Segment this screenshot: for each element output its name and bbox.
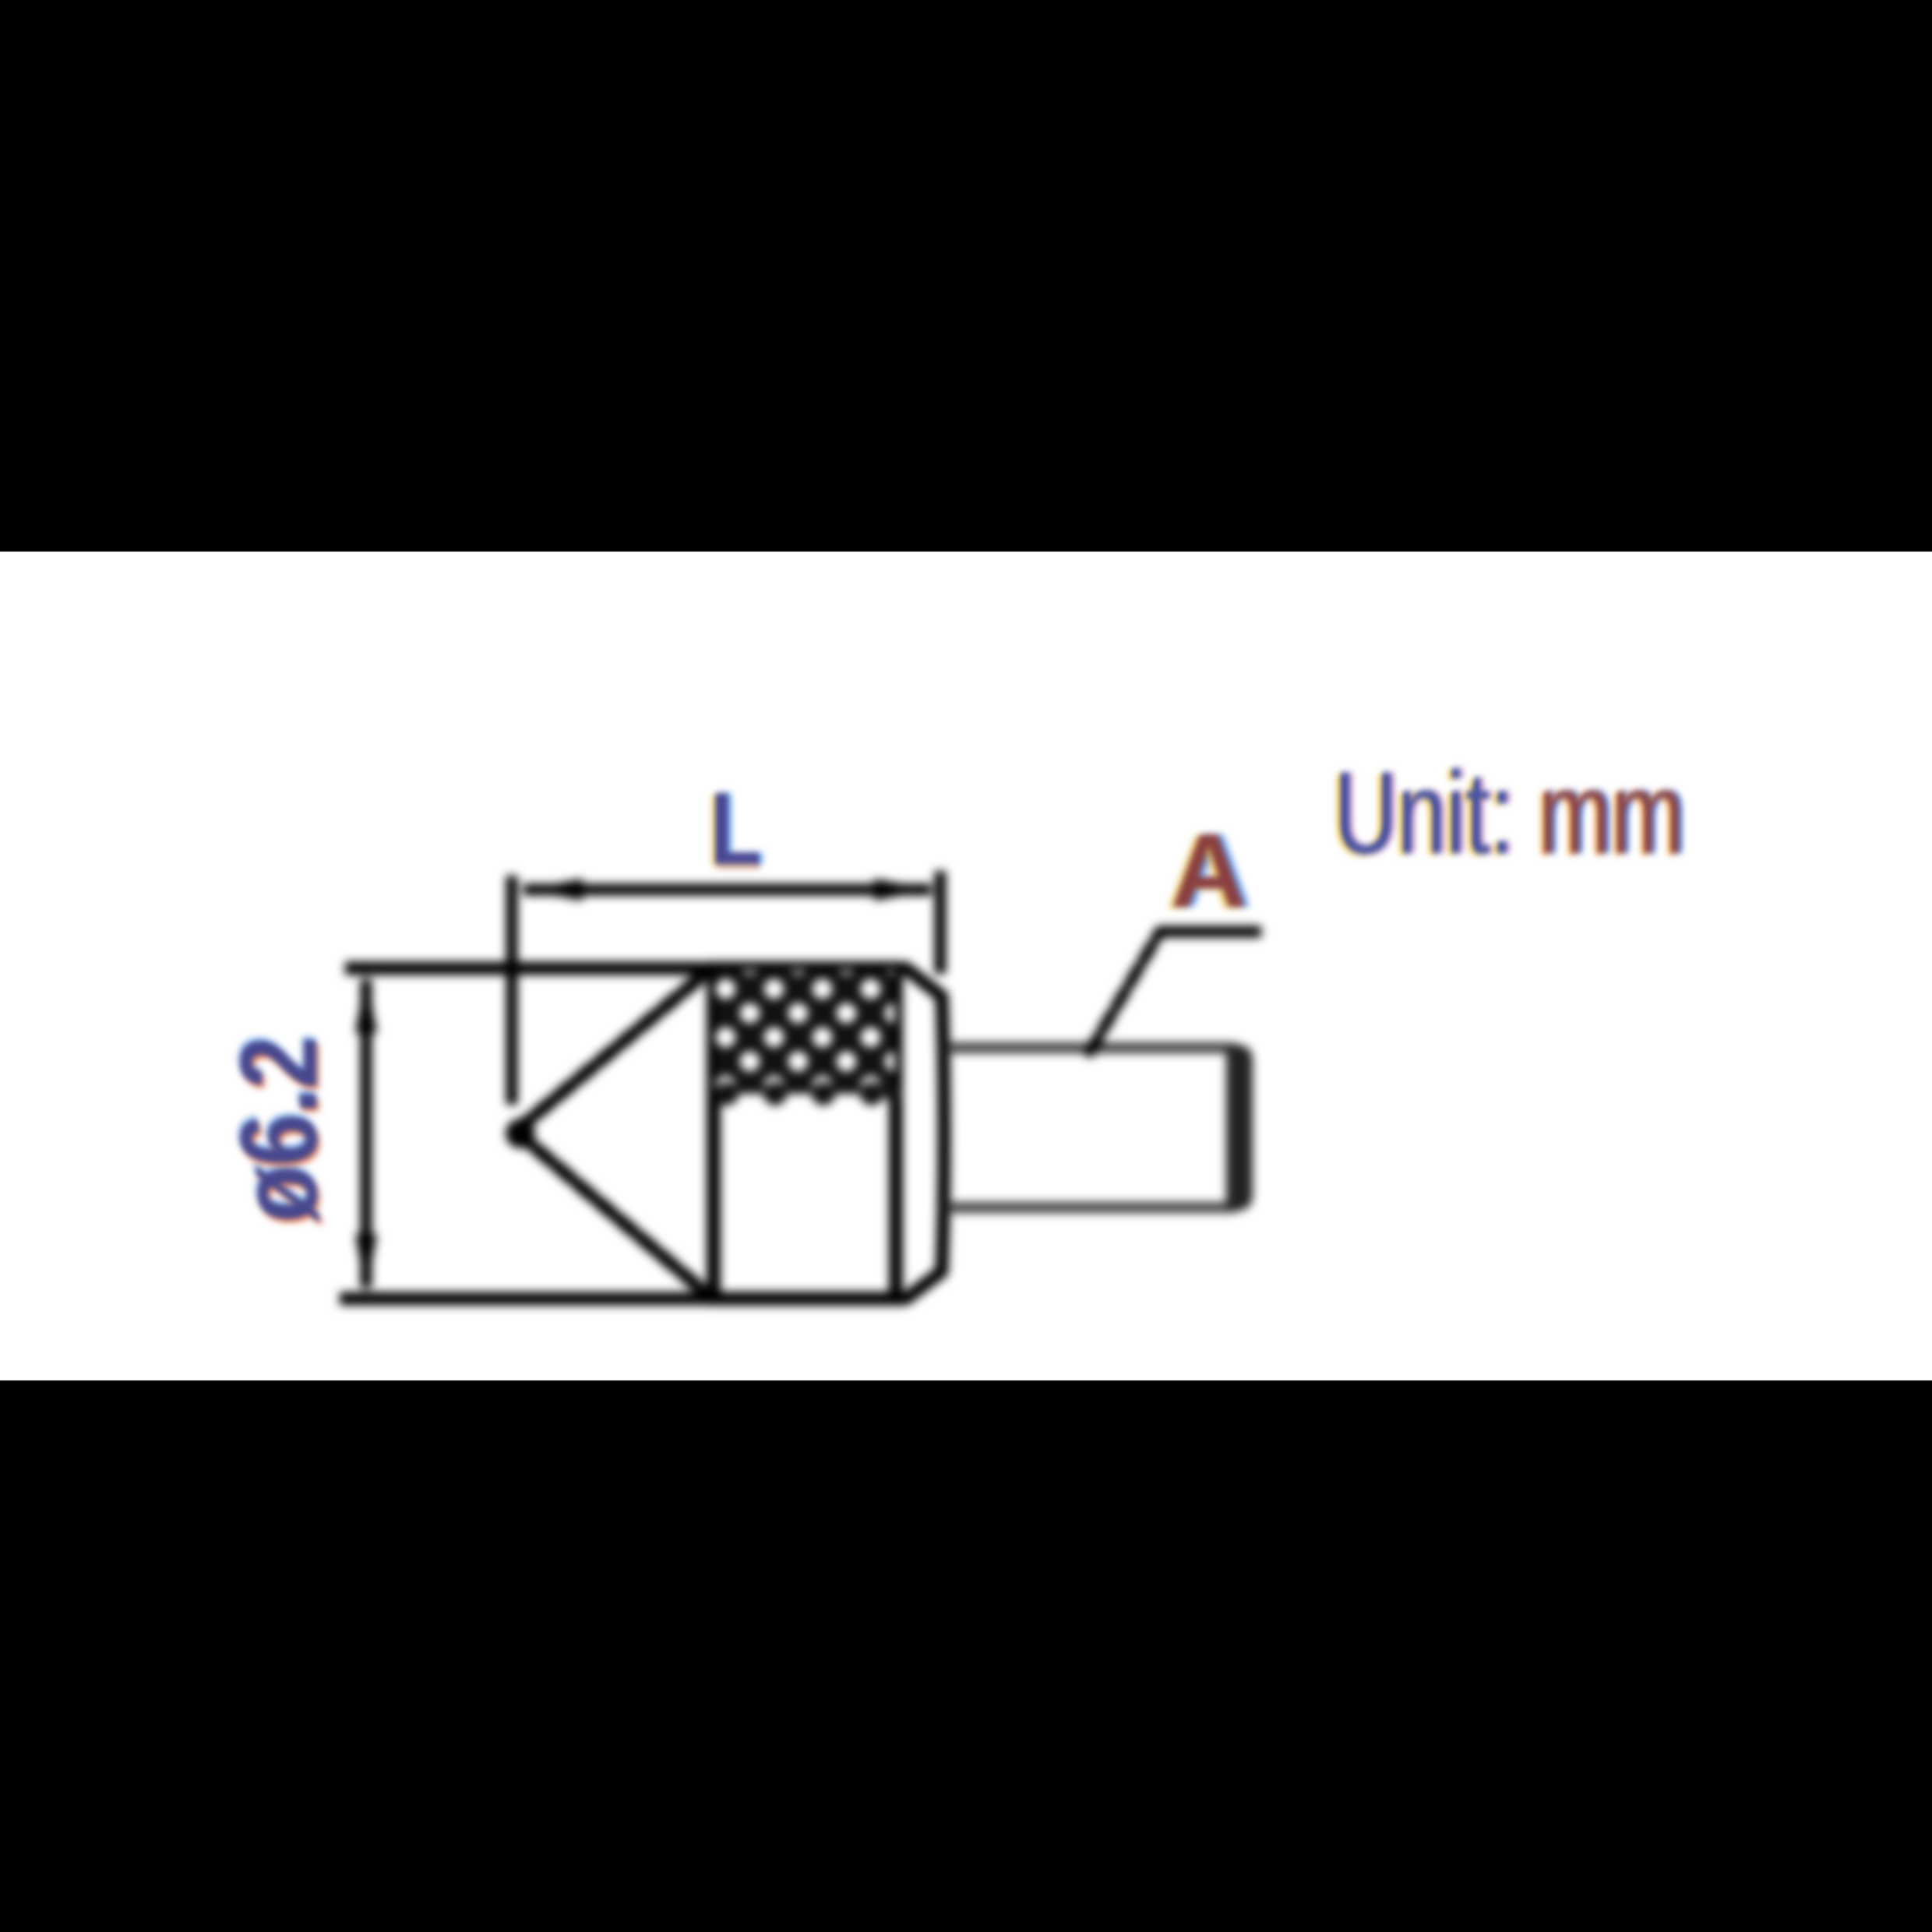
threaded stem: top edge — [947, 1042, 1234, 1053]
dimension phi 6.2: bottom extension line — [340, 1292, 710, 1306]
contact point cone: lower slant edge — [516, 1131, 710, 1297]
contact point cone: upper slant edge — [516, 969, 710, 1131]
dimension phi 6.2: top arrowhead — [355, 974, 377, 1033]
label phi 6.2 (rotated) — [220, 1031, 337, 1229]
threaded stem: bottom edge — [947, 1202, 1234, 1213]
label Unit: mm — [1334, 746, 1684, 880]
dimension phi 6.2: top extension line — [345, 962, 710, 975]
dimension L: left extension line — [506, 876, 518, 1105]
white letterbox content area — [0, 552, 1932, 1380]
dimension L: dimension line with arrows — [524, 884, 931, 896]
dimension L: left arrowhead — [524, 879, 583, 901]
dimension L: right arrowhead — [874, 879, 933, 901]
knurled body: knurl checker pattern — [715, 971, 894, 1094]
contact point cone: apex dot — [506, 1119, 535, 1148]
body collar right profile: top edge and chamfer — [896, 968, 944, 1299]
dimension phi 6.2: dimension line with arrows — [361, 980, 372, 1287]
leader line A: diagonal segment — [1090, 932, 1160, 1052]
label A — [1171, 810, 1247, 931]
dimension L: right extension line — [935, 871, 947, 974]
knurled body: knurl wavy bottom bumps — [715, 1082, 903, 1105]
label L — [710, 770, 761, 887]
dimension phi 6.2: bottom arrowhead — [355, 1234, 377, 1293]
leader line A: horizontal segment — [1158, 926, 1261, 938]
knurled body: outline rectangle — [714, 968, 896, 1299]
threaded stem: right end face — [1226, 1044, 1253, 1211]
